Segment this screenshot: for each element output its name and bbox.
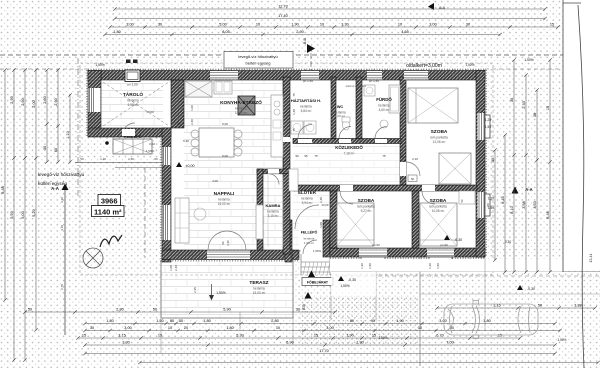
svg-text:2,60: 2,60 [21,98,25,105]
svg-text:-0,30: -0,30 [348,278,356,282]
svg-text:1,08: 1,08 [169,265,173,271]
svg-text:36: 36 [533,113,537,117]
svg-text:10: 10 [168,326,172,330]
svg-text:kerámia: kerámia [304,237,315,241]
svg-text:2,80: 2,80 [271,319,278,323]
svg-text:-0,30: -0,30 [454,238,462,242]
svg-text:15: 15 [550,23,554,27]
svg-text:5,94 m²: 5,94 m² [302,201,313,205]
svg-text:1,50%: 1,50% [313,249,321,253]
svg-text:kerámia: kerámia [218,198,230,202]
svg-text:FELLÉPŐ: FELLÉPŐ [301,230,318,235]
svg-text:FÜRDŐ: FÜRDŐ [376,97,392,102]
svg-text:1,50%: 1,50% [465,63,474,67]
svg-text:kerámia: kerámia [127,99,139,103]
svg-text:A-A: A-A [525,187,532,192]
svg-text:1,08: 1,08 [319,222,323,228]
svg-text:1,20: 1,20 [100,157,106,161]
svg-text:4,60 m²: 4,60 m² [379,108,390,112]
svg-text:1,50: 1,50 [436,263,440,269]
svg-text:4,00: 4,00 [212,179,218,183]
svg-text:1,50%: 1,50% [378,336,387,340]
svg-text:50: 50 [153,308,157,312]
svg-text:3,30: 3,30 [341,23,348,27]
svg-text:1,00: 1,00 [190,105,194,111]
svg-text:pn 1,00: pn 1,00 [127,83,137,87]
svg-text:3,38: 3,38 [574,304,581,308]
svg-text:1,10: 1,10 [66,131,70,138]
svg-text:15: 15 [498,334,502,338]
svg-text:14,29 m²: 14,29 m² [235,111,248,115]
svg-text:30: 30 [158,23,162,27]
svg-text:80: 80 [486,203,490,207]
svg-text:levegő-víz hőszivattyú: levegő-víz hőszivattyú [238,54,277,59]
svg-text:SZOBA: SZOBA [430,198,447,204]
svg-text:10: 10 [276,326,280,330]
svg-text:5,03: 5,03 [21,211,25,218]
svg-text:1,80: 1,80 [203,319,210,323]
svg-text:1,80: 1,80 [106,319,113,323]
svg-text:ELŐTÉR: ELŐTÉR [298,190,317,195]
svg-text:KÖZLEKEDŐ: KÖZLEKEDŐ [335,145,363,150]
svg-text:8,45: 8,45 [501,196,505,203]
svg-text:15: 15 [372,334,376,338]
svg-text:kerámia: kerámia [300,105,312,109]
svg-text:2,40: 2,40 [226,240,230,246]
svg-text:1,50: 1,50 [156,319,163,323]
svg-text:1,20: 1,20 [485,118,491,122]
svg-text:10,06 m²: 10,06 m² [432,209,445,213]
svg-text:pn 90: pn 90 [440,243,448,247]
svg-text:2,40: 2,40 [174,265,178,271]
svg-text:8,48: 8,48 [1,186,5,193]
svg-text:2,90: 2,90 [296,30,303,34]
svg-text:5,20: 5,20 [32,209,36,216]
svg-text:2,90: 2,90 [10,96,14,103]
svg-text:10: 10 [320,23,324,27]
svg-text:NAPPALI: NAPPALI [214,191,235,197]
svg-text:75: 75 [314,154,318,158]
svg-text:beltéri egység: beltéri egység [246,61,271,66]
svg-text:B-B: B-B [302,303,306,309]
svg-text:9,27 m²: 9,27 m² [361,209,372,213]
svg-text:30: 30 [90,326,94,330]
svg-text:75: 75 [382,154,386,158]
svg-text:1,50%: 1,50% [216,291,226,295]
svg-text:3,68: 3,68 [522,201,526,208]
svg-text:2,60: 2,60 [43,96,47,103]
svg-text:A-A: A-A [51,186,60,191]
svg-text:1,50: 1,50 [485,125,491,129]
svg-text:1,90: 1,90 [356,341,363,345]
svg-text:95: 95 [400,154,404,158]
svg-text:90: 90 [371,319,375,323]
svg-text:kerámia: kerámia [235,107,247,111]
svg-text:5,00: 5,00 [222,154,228,158]
svg-text:80: 80 [170,319,174,323]
svg-text:15: 15 [314,334,318,338]
svg-text:2,80: 2,80 [116,308,123,312]
svg-text:30: 30 [296,308,300,312]
svg-text:20: 20 [184,326,188,330]
svg-text:lam.parketta: lam.parketta [429,205,447,209]
svg-text:levegő-víz hőszivattyú: levegő-víz hőszivattyú [38,172,85,177]
svg-text:90: 90 [221,241,225,245]
svg-text:3,53: 3,53 [533,201,537,208]
svg-text:2,10: 2,10 [412,157,418,161]
svg-text:30: 30 [491,158,495,162]
svg-text:KAMRA: KAMRA [266,203,281,208]
svg-text:5,40: 5,40 [183,139,189,143]
svg-text:30: 30 [466,23,470,27]
svg-text:5,84 m²: 5,84 m² [301,109,312,113]
svg-text:2,35: 2,35 [193,287,197,293]
svg-text:1,80: 1,80 [483,319,490,323]
svg-text:2,00: 2,00 [32,100,36,107]
svg-text:17,40: 17,40 [278,14,288,18]
svg-text:8,10: 8,10 [510,206,514,213]
svg-text:10: 10 [418,326,422,330]
svg-text:1,96 m²: 1,96 m² [304,241,314,245]
svg-text:elszívó ventilátor: elszívó ventilátor [346,84,367,88]
svg-text:1,80: 1,80 [226,326,233,330]
svg-text:2,40: 2,40 [190,119,194,125]
svg-text:60: 60 [154,157,158,161]
svg-text:2,90: 2,90 [54,98,58,105]
svg-text:5,93: 5,93 [10,211,14,218]
svg-text:30: 30 [510,98,514,102]
svg-text:1,90: 1,90 [346,334,353,338]
svg-text:75: 75 [292,93,296,97]
svg-text:lam.parketta: lam.parketta [430,136,448,140]
svg-text:1,20: 1,20 [488,197,494,201]
svg-text:1,20: 1,20 [428,263,432,269]
svg-text:12,70: 12,70 [278,5,288,9]
svg-text:75: 75 [292,128,296,132]
svg-text:19,00 m²: 19,00 m² [218,202,231,206]
svg-text:6,70: 6,70 [436,334,443,338]
svg-text:TERASZ: TERASZ [249,280,268,286]
svg-text:WC: WC [337,105,344,109]
svg-text:1,50%: 1,50% [557,338,566,342]
svg-text:80: 80 [350,319,354,323]
svg-text:7,00: 7,00 [446,341,453,345]
svg-text:1,50: 1,50 [368,263,372,269]
svg-text:1,50%: 1,50% [340,284,350,288]
svg-text:4,18: 4,18 [60,225,64,231]
svg-text:±0,00: ±0,00 [294,249,301,253]
svg-text:1,06 m²: 1,06 m² [335,114,345,118]
svg-text:8,46: 8,46 [546,211,550,218]
svg-text:1,50%: 1,50% [146,149,155,153]
svg-text:5,90: 5,90 [223,308,230,312]
svg-text:3,20: 3,20 [60,197,64,203]
svg-text:30: 30 [43,146,47,150]
svg-text:17,70: 17,70 [319,349,329,353]
svg-text:2,48: 2,48 [319,197,323,203]
svg-text:95: 95 [304,154,308,158]
svg-text:2,78: 2,78 [60,284,64,290]
svg-text:5,30: 5,30 [236,334,243,338]
svg-text:3,30: 3,30 [122,341,129,345]
svg-text:13,44: 13,44 [589,254,593,263]
svg-text:60: 60 [54,148,58,152]
svg-text:10: 10 [256,23,260,27]
svg-text:50: 50 [411,177,415,181]
svg-text:0,30: 0,30 [505,240,511,244]
svg-text:HÁZTARTÁSI H.: HÁZTARTÁSI H. [291,98,321,103]
svg-text:1,50%: 1,50% [524,58,534,62]
svg-text:pn 1,50: pn 1,50 [303,79,313,83]
svg-text:±0,00: ±0,00 [186,164,195,168]
svg-text:5,00: 5,00 [222,122,228,126]
svg-text:50: 50 [28,308,32,312]
svg-text:3,00: 3,00 [326,326,333,330]
svg-text:kerámia: kerámia [301,197,313,201]
svg-text:1,50%: 1,50% [95,63,105,67]
svg-text:15,00 m²: 15,00 m² [253,291,266,295]
svg-text:1,90: 1,90 [291,23,298,27]
svg-text:3,15: 3,15 [118,334,125,338]
svg-text:4,65: 4,65 [401,30,408,34]
svg-text:lam.parketta: lam.parketta [357,205,375,209]
svg-text:15: 15 [546,106,550,110]
svg-text:6,98 m²: 6,98 m² [128,103,139,107]
svg-text:1,80: 1,80 [113,30,120,34]
svg-text:0,02: 0,02 [149,142,155,146]
svg-text:10: 10 [398,23,402,27]
svg-text:pn 1,50: pn 1,50 [369,79,379,83]
svg-text:5,90: 5,90 [286,341,293,345]
svg-text:-0,30: -0,30 [527,287,535,291]
svg-text:1,50: 1,50 [128,157,134,161]
svg-text:1140 m²: 1140 m² [94,207,122,216]
svg-text:90: 90 [295,154,299,158]
svg-text:1,48: 1,48 [292,109,296,115]
svg-text:3,00: 3,00 [429,23,436,27]
svg-text:kerámia: kerámia [378,104,390,108]
svg-text:15: 15 [82,334,86,338]
svg-text:1,90: 1,90 [396,319,403,323]
svg-text:3,15 m²: 3,15 m² [268,214,279,218]
svg-text:8,05: 8,05 [222,30,229,34]
svg-text:A-A: A-A [439,6,446,10]
svg-text:pn 90: pn 90 [372,243,380,247]
svg-text:B-B: B-B [303,37,307,43]
svg-text:3,00: 3,00 [126,23,133,27]
svg-text:5,00: 5,00 [219,23,226,27]
svg-text:SZOBA: SZOBA [358,198,375,204]
svg-text:50: 50 [179,319,183,323]
svg-text:SZOBA: SZOBA [431,129,448,135]
svg-text:3966: 3966 [101,196,118,205]
svg-text:3,00: 3,00 [124,326,131,330]
svg-text:1,20: 1,20 [360,263,364,269]
svg-text:90: 90 [177,122,181,126]
svg-text:FŐBEJÁRAT: FŐBEJÁRAT [307,280,329,285]
svg-text:3,00: 3,00 [439,319,446,323]
svg-text:56: 56 [460,199,464,203]
svg-text:2,33: 2,33 [522,101,526,108]
svg-text:7,18 m²: 7,18 m² [344,152,355,156]
svg-text:12,06 m²: 12,06 m² [433,140,446,144]
svg-text:kerámia: kerámia [267,210,279,214]
svg-text:50: 50 [538,304,542,308]
svg-text:kerámia: kerámia [253,287,265,291]
svg-text:50: 50 [80,157,84,161]
svg-text:15: 15 [158,334,162,338]
svg-text:oldalkert=3,00m: oldalkert=3,00m [406,63,442,69]
